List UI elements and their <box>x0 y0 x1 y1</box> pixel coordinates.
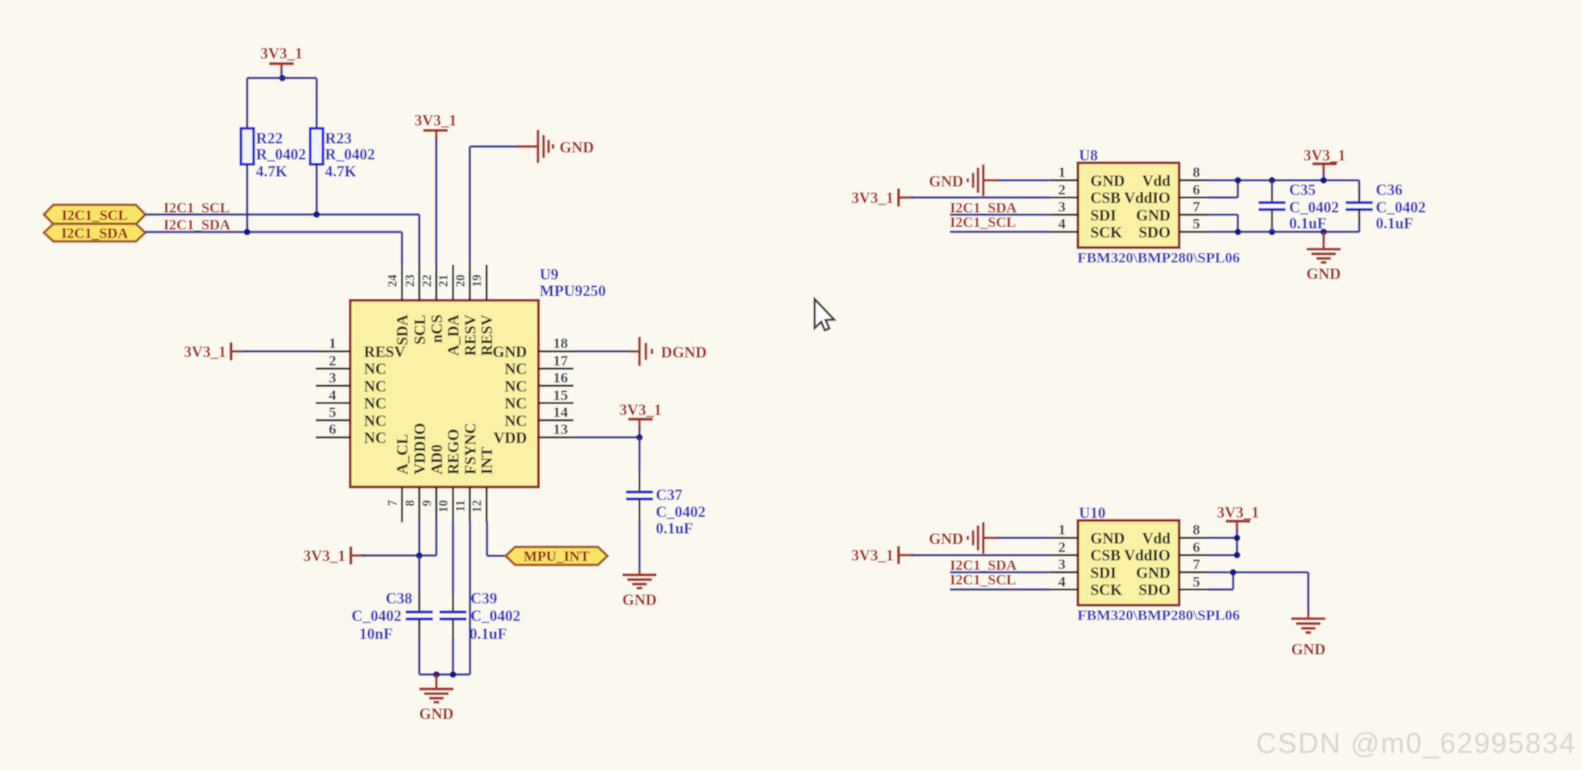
pin 6 (NC) of U9 <box>316 436 350 438</box>
wire I2C1_SDA to U10 pin 3 (SDI) <box>950 571 1050 573</box>
wire C35 stubs <box>1271 180 1273 189</box>
svg-text:I2C1_SCL: I2C1_SCL <box>950 573 1016 589</box>
pin 20 (RESV) of U9 <box>469 265 471 300</box>
svg-text:VddIO: VddIO <box>1124 190 1171 207</box>
svg-text:SCK: SCK <box>1090 582 1122 599</box>
wire GND to U10 pin 1 <box>983 537 999 539</box>
svg-text:3V3_1: 3V3_1 <box>260 46 302 63</box>
svg-text:19: 19 <box>470 275 484 288</box>
svg-text:R23: R23 <box>325 131 352 148</box>
pin 24 (SDA) of U9 <box>401 265 403 300</box>
svg-text:RESV: RESV <box>364 344 406 361</box>
wire I2C1_SCL to U8 pin 4 (SCK) <box>950 231 1050 233</box>
svg-text:NC: NC <box>364 430 386 447</box>
junction 3V3_1/Vdd rail <box>1320 177 1327 184</box>
svg-text:GND: GND <box>493 344 527 361</box>
svg-text:0.1uF: 0.1uF <box>470 626 507 643</box>
svg-text:SDI: SDI <box>1090 565 1116 582</box>
svg-text:22: 22 <box>420 275 434 288</box>
svg-text:8: 8 <box>1193 165 1201 181</box>
svg-text:VddIO: VddIO <box>1124 548 1171 565</box>
wire 3V3_1 to U10 pin 2 (CSB) <box>911 554 1050 556</box>
junction GND stem <box>1320 229 1327 236</box>
wire U10 pin 5 (SDO) up to ground wire <box>1208 588 1233 590</box>
svg-text:C36: C36 <box>1376 182 1403 199</box>
svg-text:SDO: SDO <box>1139 582 1171 599</box>
IC U8 body (FBM320) <box>1078 163 1179 248</box>
svg-text:15: 15 <box>553 388 568 404</box>
pin 7 (GND) of U8 <box>1179 214 1208 216</box>
svg-text:NC: NC <box>505 396 527 413</box>
svg-text:24: 24 <box>386 274 400 287</box>
svg-text:R_0402: R_0402 <box>256 147 306 164</box>
svg-text:3V3_1: 3V3_1 <box>851 190 893 207</box>
svg-text:1: 1 <box>1058 523 1066 539</box>
svg-text:23: 23 <box>403 275 417 288</box>
port I2C1_SCL <box>44 205 145 224</box>
capacitor C37 <box>639 471 641 492</box>
wire I2C1_SCL to pin 23 <box>145 213 419 215</box>
svg-text:GND: GND <box>560 140 594 157</box>
svg-text:GND: GND <box>622 592 656 609</box>
svg-text:5: 5 <box>1193 574 1201 590</box>
svg-text:3V3_1: 3V3_1 <box>851 548 893 565</box>
svg-text:C_0402: C_0402 <box>471 608 521 625</box>
wire C37 to GND <box>638 520 640 569</box>
junction Vdd/3V3_1 <box>1234 535 1241 542</box>
wire I2C1_SCL to U10 pin 4 (SCK) <box>950 588 1050 590</box>
svg-text:1: 1 <box>1058 165 1066 181</box>
svg-text:RESV: RESV <box>462 314 479 356</box>
wire 3V3_1 to U8 pin 2 (CSB) <box>911 196 1050 198</box>
svg-text:3: 3 <box>329 371 337 387</box>
svg-text:I2C1_SCL: I2C1_SCL <box>62 208 128 224</box>
wire R23 top lead <box>316 78 318 124</box>
svg-text:GND: GND <box>1306 266 1340 283</box>
pin 23 (SCL) of U9 <box>418 265 420 300</box>
pin 8 (VDDIO) of U9 <box>418 487 420 522</box>
svg-text:U8: U8 <box>1079 147 1098 164</box>
pin 14 (NC) of U9 <box>539 419 574 421</box>
pin 22 (nCS) of U9 <box>435 265 437 300</box>
wire 3V3_1 to pins 8,9 (VDDIO, AD0) <box>363 554 436 556</box>
wire pin 10 (REGO) down to C39 <box>452 522 454 595</box>
wire GND to U8 pin 1 <box>983 179 999 181</box>
pin 1 (RESV) of U9 <box>316 350 350 352</box>
pin 4 (SCK) of U10 <box>1050 589 1078 591</box>
pin 3 (NC) of U9 <box>316 385 350 387</box>
junction ground rail / C39 <box>450 671 457 678</box>
svg-text:C35: C35 <box>1289 182 1316 199</box>
svg-text:NC: NC <box>505 361 527 378</box>
svg-text:C38: C38 <box>386 591 413 608</box>
wire 3V3_1 rail to R22/R23 tops <box>247 77 317 79</box>
junction C35 bottom <box>1269 229 1276 236</box>
svg-text:I2C1_SDA: I2C1_SDA <box>61 226 128 242</box>
wire 3V3_1 stem to VDD node <box>638 419 640 428</box>
svg-text:3V3_1: 3V3_1 <box>1303 147 1345 164</box>
svg-text:SDO: SDO <box>1139 225 1171 242</box>
pin 6 (VddIO) of U10 <box>1179 554 1208 556</box>
svg-text:3V3_1: 3V3_1 <box>414 113 456 130</box>
pin 19 (RESV) of U9 <box>486 265 488 300</box>
wire R23 bottom lead to I2C1_SCL <box>316 164 318 170</box>
svg-text:GND: GND <box>929 173 963 190</box>
ground GND (x=1323.6) <box>1322 232 1324 249</box>
pin 11 (FSYNC) of U9 <box>469 487 471 522</box>
svg-text:A_DA: A_DA <box>446 314 463 356</box>
svg-text:4.7K: 4.7K <box>256 164 287 181</box>
svg-text:U10: U10 <box>1079 505 1106 522</box>
svg-text:Vdd: Vdd <box>1142 173 1171 190</box>
wire pin 11 (FSYNC) down to ground rail <box>469 522 471 675</box>
svg-text:FSYNC: FSYNC <box>462 423 479 475</box>
svg-text:0.1uF: 0.1uF <box>656 520 693 537</box>
junction VDD node <box>636 434 643 441</box>
svg-text:GND: GND <box>419 706 453 723</box>
pin 6 (VddIO) of U8 <box>1179 197 1208 199</box>
svg-text:A_CL: A_CL <box>395 434 412 474</box>
ground GND (U10) <box>1307 612 1309 619</box>
wire U10 pin 8 (Vdd) to 3V3_1 <box>1208 537 1237 539</box>
svg-text:13: 13 <box>553 422 568 438</box>
svg-text:12: 12 <box>470 500 484 513</box>
svg-text:0.1uF: 0.1uF <box>1376 216 1413 233</box>
capacitor C38 <box>418 594 420 612</box>
svg-text:R_0402: R_0402 <box>325 147 375 164</box>
svg-text:6: 6 <box>1193 182 1201 198</box>
svg-text:SCK: SCK <box>1090 225 1122 242</box>
svg-text:U9: U9 <box>540 267 559 284</box>
pin 4 (NC) of U9 <box>316 402 350 404</box>
wire U8 pin 5 (SDO) ground rail <box>1208 231 1359 233</box>
junction R22 on SDA wire <box>244 229 251 236</box>
pin 2 (CSB) of U8 <box>1050 197 1078 199</box>
svg-text:3V3_1: 3V3_1 <box>619 402 661 419</box>
mouse cursor <box>815 299 835 330</box>
svg-text:NC: NC <box>364 361 386 378</box>
capacitor C39 <box>452 594 454 612</box>
junction VddIO/3V3_1 <box>1234 552 1241 559</box>
ground DGND (at 639.5,351.4) <box>628 350 640 352</box>
svg-text:8: 8 <box>403 500 417 506</box>
svg-text:2: 2 <box>329 353 337 369</box>
svg-text:SDI: SDI <box>1090 207 1116 224</box>
svg-text:7: 7 <box>1193 200 1201 216</box>
pin 7 (GND) of U10 <box>1179 571 1208 573</box>
svg-text:11: 11 <box>453 500 467 512</box>
pin 4 (SCK) of U8 <box>1050 231 1078 233</box>
pin 10 (REGO) of U9 <box>452 487 454 522</box>
resistor R22 <box>241 128 254 164</box>
svg-text:NC: NC <box>364 413 386 430</box>
pin 7 (A_CL) of U9 <box>401 487 403 522</box>
pin 5 (SDO) of U10 <box>1179 589 1208 591</box>
wire U8 pin 8 (Vdd) supply rail <box>1208 179 1359 181</box>
svg-text:3V3_1: 3V3_1 <box>303 548 345 565</box>
svg-text:GND: GND <box>1136 207 1170 224</box>
svg-text:DGND: DGND <box>661 344 707 361</box>
wire pin 12 (INT) to MPU_INT port <box>486 522 488 556</box>
pin 12 (INT) of U9 <box>486 487 488 522</box>
pin 5 (SDO) of U8 <box>1179 231 1208 233</box>
svg-text:C37: C37 <box>656 487 683 504</box>
svg-text:MPU9250: MPU9250 <box>540 283 607 300</box>
svg-text:4.7K: 4.7K <box>325 164 356 181</box>
svg-text:16: 16 <box>553 371 569 387</box>
pin 8 (Vdd) of U10 <box>1179 537 1208 539</box>
wire U8 pin 7 (GND) down to ground rail <box>1208 214 1238 216</box>
junction R23 on SCL wire <box>313 211 320 218</box>
wire 3V3_1 to pin 1 <box>244 350 316 352</box>
svg-text:5: 5 <box>1193 217 1201 233</box>
svg-text:3: 3 <box>1058 200 1066 216</box>
wire C36 stubs <box>1358 180 1360 189</box>
svg-text:7: 7 <box>1193 557 1201 573</box>
ground GND (at 983.3,180.3) <box>982 179 984 181</box>
svg-text:SDA: SDA <box>395 314 412 346</box>
svg-text:3V3_1: 3V3_1 <box>184 344 226 361</box>
svg-text:NC: NC <box>364 396 386 413</box>
svg-text:AD0: AD0 <box>429 444 446 474</box>
pin 3 (SDI) of U8 <box>1050 214 1078 216</box>
wire C38 to ground rail <box>418 637 420 675</box>
wire I2C1_SDA to U8 pin 3 (SDI) <box>950 214 1050 216</box>
pin 17 (NC) of U9 <box>539 368 574 370</box>
junction pin 8 / 3V3_1 <box>416 552 423 559</box>
wire I2C1_SDA to pin 24 <box>145 231 402 233</box>
wire ground rail under C38/C39 <box>419 673 470 675</box>
ground GND (at 538,146.5) <box>517 145 538 147</box>
svg-text:FBM320\BMP280\SPL06: FBM320\BMP280\SPL06 <box>1077 250 1240 266</box>
svg-text:6: 6 <box>1193 540 1201 556</box>
svg-text:R22: R22 <box>256 131 283 148</box>
svg-text:8: 8 <box>1193 523 1201 539</box>
svg-text:10nF: 10nF <box>359 626 393 643</box>
svg-text:C39: C39 <box>471 591 498 608</box>
pin 21 (A_DA) of U9 <box>452 265 454 300</box>
junction SDO/ground wire <box>1230 569 1237 576</box>
svg-text:Vdd: Vdd <box>1142 531 1171 548</box>
pin 1 (GND) of U10 <box>1050 537 1078 539</box>
svg-text:nCS: nCS <box>429 315 446 343</box>
ground GND (x=436.4) <box>435 675 437 689</box>
port I2C1_SDA <box>44 224 145 242</box>
pin 2 (CSB) of U10 <box>1050 554 1078 556</box>
pin 16 (NC) of U9 <box>539 385 574 387</box>
svg-text:GND: GND <box>1136 565 1170 582</box>
svg-text:2: 2 <box>1058 540 1066 556</box>
svg-text:GND: GND <box>1291 642 1325 659</box>
svg-text:9: 9 <box>420 500 434 506</box>
svg-text:VDD: VDD <box>493 430 527 447</box>
svg-text:4: 4 <box>1058 217 1066 233</box>
wire VDD node down to C37 <box>638 437 640 471</box>
wire pin 8 node down to C38 <box>418 556 420 595</box>
svg-text:REGO: REGO <box>446 429 463 475</box>
wire R22 top lead <box>246 78 248 124</box>
svg-text:RESV: RESV <box>479 314 496 356</box>
svg-text:10: 10 <box>437 500 451 513</box>
pin 5 (NC) of U9 <box>316 419 350 421</box>
svg-text:2: 2 <box>1058 182 1066 198</box>
wire 3V3_1 stem to Vdd rail <box>1322 164 1324 174</box>
pin 1 (GND) of U8 <box>1050 179 1078 181</box>
svg-text:GND: GND <box>1090 531 1124 548</box>
svg-text:18: 18 <box>553 336 568 352</box>
svg-text:C_0402: C_0402 <box>1289 199 1339 216</box>
svg-text:20: 20 <box>453 275 467 288</box>
wire pin 13 (VDD) to 3V3_1 and C37 <box>574 436 640 438</box>
port MPU_INT <box>506 547 608 565</box>
svg-text:3: 3 <box>1058 557 1066 573</box>
svg-text:GND: GND <box>1090 173 1124 190</box>
svg-text:CSB: CSB <box>1090 190 1120 207</box>
wire C39 to ground rail <box>452 637 454 675</box>
ground GND (x=639.5) <box>638 569 640 574</box>
svg-text:I2C1_SCL: I2C1_SCL <box>950 215 1016 231</box>
svg-text:4: 4 <box>1058 574 1066 590</box>
pin 18 (GND) of U9 <box>539 350 574 352</box>
svg-text:MPU_INT: MPU_INT <box>524 549 590 565</box>
junction pin7/ground rail <box>1235 229 1242 236</box>
junction VddIO/Vdd <box>1235 177 1242 184</box>
wire 3V3_1 stem down across Vdd/VddIO <box>1236 521 1238 530</box>
svg-text:3V3_1: 3V3_1 <box>1217 504 1259 521</box>
pin 3 (SDI) of U10 <box>1050 571 1078 573</box>
svg-text:7: 7 <box>386 500 400 506</box>
svg-text:C_0402: C_0402 <box>1376 199 1426 216</box>
ground GND (at 983.3,537.9) <box>982 537 984 539</box>
svg-text:17: 17 <box>553 353 569 369</box>
capacitor C35 <box>1271 189 1273 203</box>
wire U8 pin 6 (VddIO) up to supply rail <box>1208 196 1238 198</box>
wire R22 bottom lead to I2C1_SDA <box>246 164 248 170</box>
svg-text:C_0402: C_0402 <box>352 608 402 625</box>
svg-text:4: 4 <box>329 388 337 404</box>
junction ground rail / GND stem <box>433 671 440 678</box>
svg-text:CSB: CSB <box>1090 548 1120 565</box>
svg-text:VDDIO: VDDIO <box>412 423 429 475</box>
svg-text:NC: NC <box>505 378 527 395</box>
wire pin 18 to DGND <box>574 350 630 352</box>
resistor R23 <box>310 128 323 164</box>
svg-text:GND: GND <box>929 531 963 548</box>
svg-text:21: 21 <box>437 275 451 288</box>
wire pin 20 (RESV) to GND <box>469 147 471 265</box>
wire pin 8 down <box>418 522 420 556</box>
svg-text:1: 1 <box>329 336 337 352</box>
capacitor C36 <box>1358 189 1360 203</box>
wire 3V3_1 to pin 22 (nCS) <box>435 130 437 141</box>
svg-text:NC: NC <box>505 413 527 430</box>
junction on 3V3_1 rail <box>279 75 286 82</box>
wire U10 pin 6 (VddIO) to 3V3_1 <box>1208 554 1237 556</box>
IC U10 body (FBM320) <box>1078 520 1179 605</box>
junction C35 top <box>1269 177 1276 184</box>
pin 2 (NC) of U9 <box>316 368 350 370</box>
svg-text:SCL: SCL <box>412 315 429 345</box>
pin 15 (NC) of U9 <box>539 402 574 404</box>
svg-text:14: 14 <box>553 405 569 421</box>
svg-text:C_0402: C_0402 <box>656 504 706 521</box>
op-amp-style IC U9 body (MPU9250) <box>350 300 538 487</box>
svg-text:6: 6 <box>329 422 337 438</box>
svg-text:5: 5 <box>329 405 337 421</box>
svg-text:CSDN @m0_62995834: CSDN @m0_62995834 <box>1256 728 1576 760</box>
svg-text:NC: NC <box>364 378 386 395</box>
pin 13 (VDD) of U9 <box>539 436 574 438</box>
svg-text:INT: INT <box>479 446 496 474</box>
svg-text:FBM320\BMP280\SPL06: FBM320\BMP280\SPL06 <box>1077 608 1240 624</box>
pin 8 (Vdd) of U8 <box>1179 179 1208 181</box>
pin 9 (AD0) of U9 <box>435 487 437 522</box>
wire U10 pin 7 (GND) to ground <box>1208 571 1308 573</box>
